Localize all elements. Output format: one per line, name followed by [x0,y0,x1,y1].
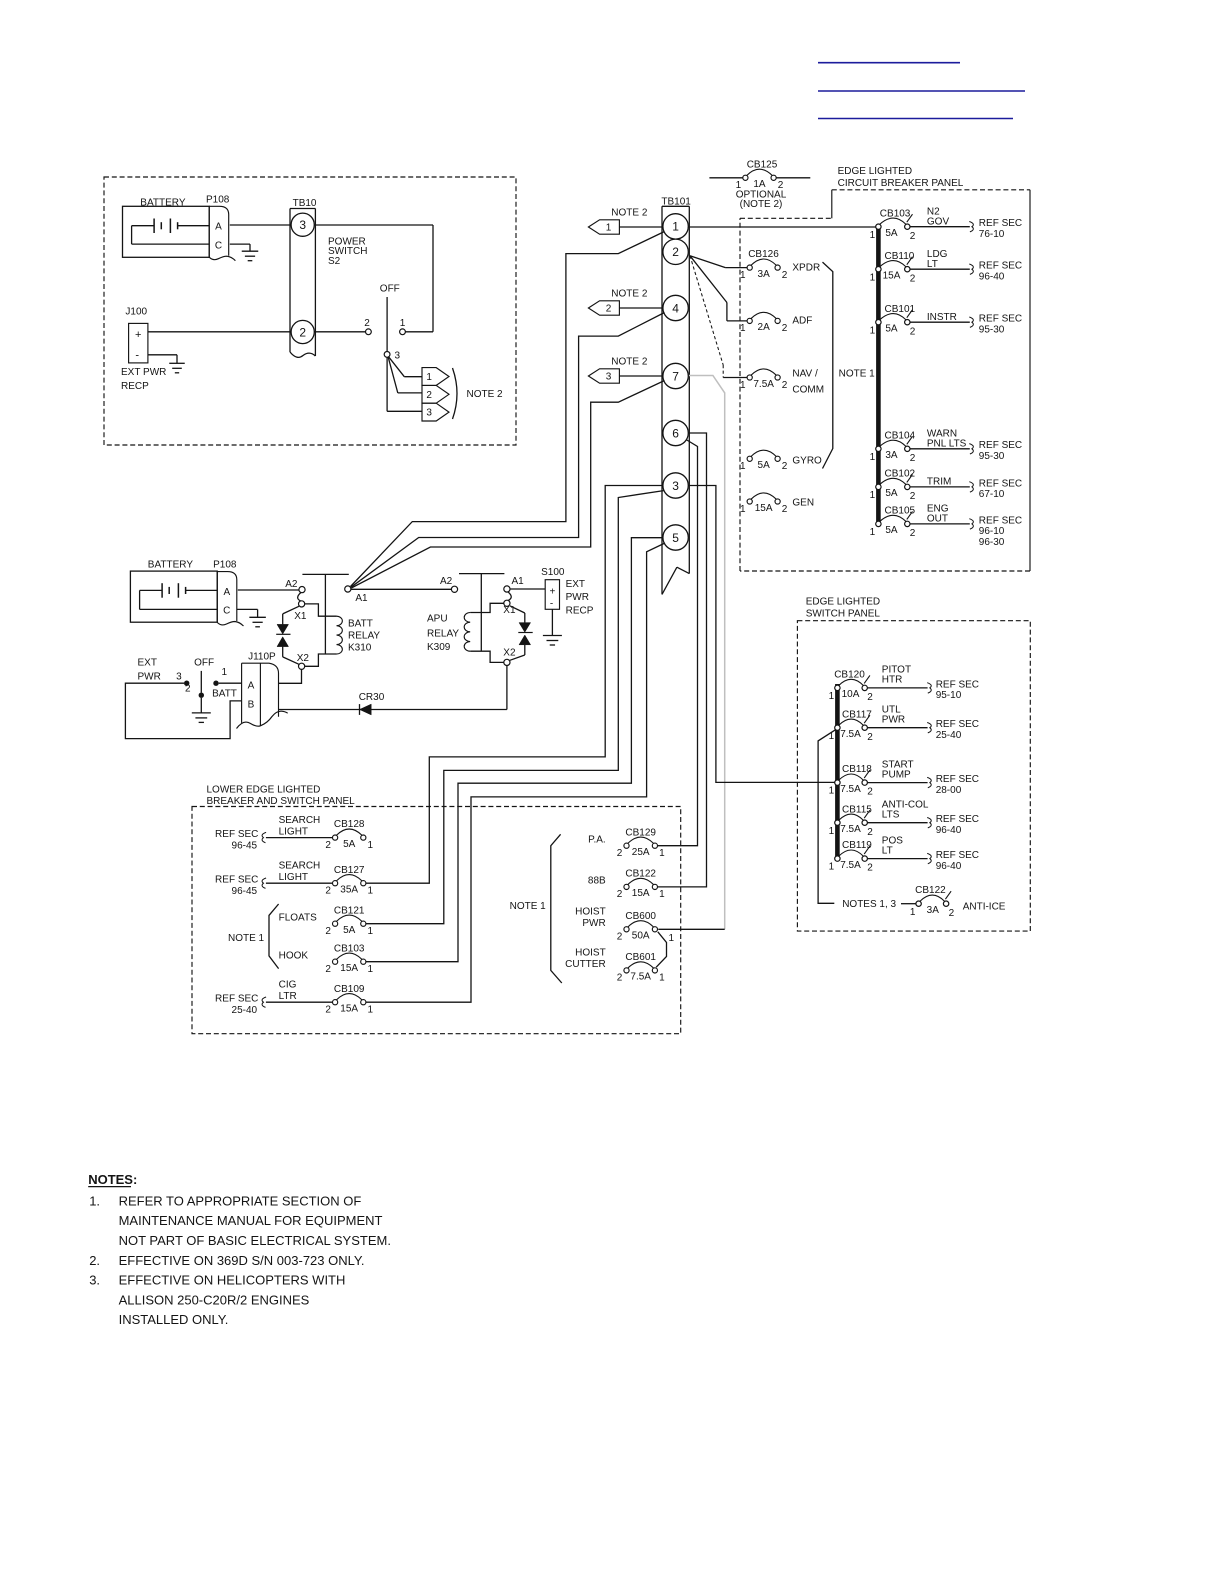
wire A1 to TB101-1 [351,232,665,587]
svg-text:LTS: LTS [882,809,900,820]
svg-text:3: 3 [606,372,612,383]
apu relay contact A2 [451,586,457,592]
svg-text:PNL LTS: PNL LTS [927,439,967,450]
label GEN [792,497,814,508]
svg-text:96-30: 96-30 [979,537,1005,548]
svg-text:1: 1 [740,323,746,334]
svg-text:J100: J100 [125,306,147,317]
wire CB103-2 to ref [910,226,970,228]
svg-text:-: - [550,599,553,610]
svg-text:BATTERY: BATTERY [148,560,194,571]
svg-text:2: 2 [867,787,873,798]
svg-text:X2: X2 [503,647,516,658]
label CR30 [359,692,385,703]
svg-text:PWR: PWR [566,592,589,603]
svg-text:BATT: BATT [212,689,237,700]
svg-text:LTR: LTR [279,991,297,1002]
svg-text:96-10: 96-10 [979,526,1005,537]
label A2 (K309) [440,576,453,587]
ref-sec hook (CB127) [262,878,266,888]
svg-text:OUT: OUT [927,514,948,525]
wire X1 contact to coil (K310) [305,604,337,616]
svg-text:NOTE 1: NOTE 1 [839,369,876,380]
svg-text:HOOK: HOOK [279,950,309,961]
wire P108-A to batt relay A2 [238,589,299,591]
relay coil K309 [464,613,470,652]
svg-text:2: 2 [325,840,331,851]
svg-text:RELAY: RELAY [427,629,459,640]
svg-text:25A: 25A [632,847,650,858]
label OFF (S2) [380,283,400,294]
label SEARCH LIGHT (CB127) [279,861,321,883]
label A2 (K310) [285,579,298,590]
label ENG OUT [927,504,949,525]
svg-text:A: A [215,221,222,232]
wire CB115-2 to ref [867,822,927,824]
svg-text:CB128: CB128 [334,819,365,830]
circuit breaker CB109 15A (lower panel) [325,984,373,1016]
svg-text:3: 3 [672,479,679,493]
svg-text:2: 2 [426,390,432,401]
label N2 GOV [927,207,950,228]
label OFF (selector) [194,658,214,669]
wire J110P-B to apu relay X2 (via CR30) [279,666,507,710]
label J110P [248,652,276,663]
wire TB101-3 to CB118 start pump [688,486,836,783]
wire coil to X2 (K309) [470,651,504,662]
svg-text:A: A [223,587,230,598]
wire hook to CB109-2 [266,1001,333,1003]
svg-text:SWITCH PANEL: SWITCH PANEL [806,608,881,619]
svg-text:LT: LT [927,259,938,270]
svg-text:3.: 3. [89,1273,100,1288]
wire S2-3 to note arrow 3 [387,357,422,411]
circuit breaker 2A (ADF) [740,312,788,334]
label ANTI-ICE [963,902,1006,913]
svg-text:2: 2 [325,964,331,975]
svg-text:25-40: 25-40 [936,730,962,741]
wire CB127 to TB101-3 [366,486,663,884]
circuit breaker CB128 5A (lower panel) [325,819,373,851]
svg-text:INSTR: INSTR [927,312,957,323]
power switch S2 contacts [364,297,406,362]
svg-text:1: 1 [870,325,876,336]
svg-text:2: 2 [364,318,370,329]
svg-text:3A: 3A [885,450,898,461]
label J100 [125,306,147,317]
svg-text:2: 2 [782,461,788,472]
note 1 text [89,1194,391,1249]
svg-text:CB118: CB118 [842,764,872,775]
svg-text:TB101: TB101 [661,196,691,207]
note-1 bracket (floats/hook) [269,904,279,969]
svg-text:2: 2 [867,863,873,874]
battery power switch enclosure (dashed box) [104,177,516,445]
label P108 (top) [206,195,230,206]
wire coil to X2 (K310) [305,654,337,666]
svg-text:1: 1 [829,826,835,837]
svg-text:EDGE LIGHTED: EDGE LIGHTED [838,166,912,177]
svg-text:PWR: PWR [582,918,605,929]
wire A1 to TB101-4 [351,313,665,588]
apu relay contact X2 [504,659,510,665]
svg-text:CB125: CB125 [747,160,778,171]
wire TB10-2 to switch contact 2 [314,331,365,333]
selector switch contacts [176,667,227,698]
label NOTE 2 (top box) [467,389,504,400]
svg-text:REF SEC: REF SEC [979,515,1022,526]
circuit breaker CB125 1A (optional) [736,169,784,191]
svg-text:2: 2 [910,273,916,284]
svg-text:2: 2 [910,326,916,337]
svg-text:15A: 15A [755,503,773,514]
svg-text:REF SEC: REF SEC [936,774,979,785]
wire TB101-7 to hoist pwr CB600 (note 1, grey) [689,376,725,930]
label REF SEC 95-10 (CB120) [936,679,979,701]
circuit breaker CB127 35A (lower panel) [325,865,373,897]
label X1 (K310) [294,611,307,622]
wire S100 to ground [551,609,553,635]
svg-text:1: 1 [426,372,432,383]
label CIG LTR (CB109) [279,980,297,1002]
wire hook to CB128-2 [266,837,333,839]
svg-text:OFF: OFF [194,658,214,669]
off-page arrow 1 at TB101 (note 2) [588,220,619,234]
label ADF [792,316,812,327]
label NOTES 1, 3 [842,899,896,910]
svg-text:1: 1 [222,667,228,678]
svg-text:HOIST: HOIST [575,948,606,959]
svg-text:2: 2 [606,304,612,315]
svg-text:NOTE 2: NOTE 2 [611,289,648,300]
ref-sec hook (CB101) [969,317,973,327]
off-page arrow 3 (note 2) [422,403,449,421]
svg-text:5A: 5A [885,228,898,239]
svg-text:GYRO: GYRO [792,456,822,467]
wire stub left of CB125 [709,177,742,179]
svg-text:A1: A1 [512,576,525,587]
svg-text:LIGHT: LIGHT [279,872,308,883]
wire ext pwr loop to J110P-B [125,683,241,738]
svg-text:LT: LT [882,845,893,856]
svg-text:2: 2 [782,323,788,334]
svg-text:15A: 15A [340,1004,358,1015]
svg-text:RECP: RECP [566,605,594,616]
svg-text:2: 2 [299,325,306,339]
svg-text:1: 1 [659,848,665,859]
svg-text:BATTERY: BATTERY [140,198,186,209]
svg-text:REF SEC: REF SEC [936,679,979,690]
wire CB118-2 to ref [867,782,927,784]
label BATT [212,689,237,700]
batt relay contact A1 [345,586,351,592]
svg-text:TRIM: TRIM [927,477,951,488]
connector J110P [237,663,288,728]
svg-text:X1: X1 [294,611,307,622]
svg-text:CB122: CB122 [915,885,946,896]
label X2 (K310) [297,653,310,664]
svg-text:95-30: 95-30 [979,451,1005,462]
connector P108 (top) [209,206,235,260]
svg-text:BREAKER AND SWITCH PANEL: BREAKER AND SWITCH PANEL [207,796,356,807]
blue header rule 1 [818,62,960,64]
label NOTE 2 (arrow 3) [611,357,648,368]
wire CB119-2 to ref [867,858,927,860]
battery BT2 [130,571,217,622]
svg-text:APU: APU [427,613,448,624]
svg-text:REF SEC: REF SEC [979,440,1022,451]
svg-text:CR30: CR30 [359,692,385,703]
label CB126 [748,249,779,260]
wire J100+ to TB10-2 [148,331,291,333]
svg-text:NAV /: NAV / [792,369,818,380]
label HOOK (CB103) [279,950,309,961]
suppression diode (K310) [276,606,299,664]
svg-text:88B: 88B [588,876,606,887]
svg-text:CB109: CB109 [334,984,365,995]
connector J100 [129,323,148,363]
svg-text:1: 1 [870,452,876,463]
ref-sec hook (CB120) [927,683,931,693]
svg-text:K310: K310 [348,642,372,653]
label SEARCH LIGHT (CB128) [279,815,321,837]
svg-text:RELAY: RELAY [348,631,380,642]
ref-sec hook (CB115) [927,818,931,828]
label S100 [541,567,565,578]
circuit breaker CB110 15A [870,251,916,285]
ref-sec hook (CB102) [969,482,973,492]
svg-text:1: 1 [870,272,876,283]
svg-text:EXT: EXT [566,579,585,590]
svg-text:5A: 5A [758,460,771,471]
circuit breaker CB122 3A (anti-ice) [910,885,955,919]
ref-sec hook (CB118) [927,777,931,787]
svg-text:EDGE LIGHTED: EDGE LIGHTED [806,597,880,608]
label HOIST CUTTER (CB601) [565,948,606,970]
svg-text:95-10: 95-10 [936,690,962,701]
label EDGE LIGHTED SWITCH PANEL [806,597,881,620]
label P108 (middle) [213,560,237,571]
label XPDR [792,262,820,273]
label START PUMP (CB118) [882,759,914,780]
svg-text:-: - [135,349,139,361]
label X1 (K309) [503,605,516,616]
svg-text:RECP: RECP [121,381,149,392]
battery BT1 [123,206,210,257]
label INSTR [927,312,957,323]
svg-text:CB129: CB129 [625,827,656,838]
svg-text:1: 1 [672,220,679,234]
blue header rule 3 [818,118,1013,120]
circuit breaker CB119 7.5A (switch panel) [829,840,874,874]
svg-text:CB122: CB122 [625,869,656,880]
label REF SEC 25-40 (CB117) [936,719,979,741]
svg-text:REF SEC: REF SEC [215,875,258,886]
svg-text:1: 1 [829,691,835,702]
svg-text:CB115: CB115 [842,804,872,815]
wire TB101-6 to CB122 (88B) [657,433,707,887]
svg-text:2.: 2. [89,1253,100,1268]
circuit breaker CB600 50A (lower panel) [617,911,675,944]
circuit breaker CB115 7.5A (switch panel) [829,804,874,838]
wire TB101-2 to CB126 [690,256,747,268]
svg-text:EFFECTIVE ON HELICOPTERS WITH: EFFECTIVE ON HELICOPTERS WITH [119,1273,346,1288]
label REF SEC 96-40 [979,261,1022,283]
label PITOT HTR (CB120) [882,665,911,686]
svg-text:NOTE 2: NOTE 2 [611,357,648,368]
wire arrow3 to TB101-7 [619,375,663,377]
svg-text:+: + [135,329,141,341]
svg-text:S100: S100 [541,567,565,578]
svg-text:CB117: CB117 [842,709,872,720]
label REF SEC 96-40 (CB115) [936,814,979,836]
svg-text:3A: 3A [927,905,940,916]
svg-text:2: 2 [910,491,916,502]
svg-text:X2: X2 [297,653,310,664]
svg-text:REF SEC: REF SEC [979,478,1022,489]
svg-text:5A: 5A [885,488,898,499]
wire J100- to ground [148,355,177,364]
svg-text:LIGHT: LIGHT [279,826,308,837]
label BATTERY (top) [140,198,186,209]
svg-text:REF SEC: REF SEC [215,829,258,840]
svg-text:GEN: GEN [792,497,814,508]
svg-text:CB103: CB103 [880,208,911,219]
off-page arrow 1 (note 2) [422,368,449,386]
svg-text:76-10: 76-10 [979,229,1005,240]
brace for note arrows [453,368,458,419]
circuit breaker CB129 25A (lower panel) [617,827,665,859]
svg-text:3: 3 [395,351,401,362]
label HOIST PWR (CB600) [575,907,606,929]
svg-text:2: 2 [782,504,788,515]
note 3 text [89,1273,345,1327]
svg-text:96-45: 96-45 [232,840,258,851]
svg-text:2: 2 [617,889,623,900]
svg-text:1: 1 [368,840,374,851]
notes heading [88,1172,137,1187]
circuit breaker 7.5A (NAV/COMM) [740,369,788,391]
ref-sec hook (CB119) [927,853,931,863]
svg-text:C: C [215,240,222,251]
wire A1 to TB101-7 [351,381,664,589]
label BATT RELAY K310 [348,619,380,654]
svg-text:3: 3 [299,218,306,232]
circuit breaker CB601 7.5A (lower panel) [617,952,665,984]
power bus bar (breaker panel) [876,227,881,524]
wire stub right of CB125 [776,177,810,179]
circuit breaker CB120 10A (switch panel) [829,670,874,704]
ref-sec hook (CB105) [969,519,973,529]
ext pwr receptacle S100 [545,580,559,610]
label REF SEC 96-40 (CB119) [936,850,979,872]
wire CB121 to TB101-3 [366,491,665,924]
svg-text:1: 1 [669,933,675,944]
svg-text:NOTE 2: NOTE 2 [467,389,504,400]
label CB125 [747,160,778,171]
ref-sec hook (CB110) [969,264,973,274]
svg-text:SEARCH: SEARCH [279,861,321,872]
svg-text:1: 1 [368,926,374,937]
lower panel enclosure (dashed) [192,807,681,1034]
label EXT PWR (selector) [138,658,161,683]
svg-text:HOIST: HOIST [575,907,606,918]
svg-text:2: 2 [672,245,679,259]
wire A1 (K309) to S100 [510,588,545,590]
ground for S100 [543,636,562,646]
svg-text:1: 1 [740,504,746,515]
circuit breaker CB103 5A [870,208,916,242]
label POS LT (CB119) [882,835,903,856]
batt relay contact X2 [299,663,305,669]
terminal strip TB101 [662,206,689,594]
svg-text:CB104: CB104 [885,430,916,441]
wire TB101-2 to ADF breaker [690,256,747,321]
svg-text:2: 2 [617,848,623,859]
svg-text:P108: P108 [206,195,230,206]
svg-text:TB10: TB10 [293,198,317,209]
svg-text:CB126: CB126 [748,249,779,260]
circuit breaker CB103 15A (lower panel) [325,943,373,975]
wire selector-1 to J110P-A [219,682,242,684]
wire selector-2 to ground [200,698,202,713]
circuit breaker CB117 7.5A (switch panel) [829,709,874,743]
ref-sec hook (CB103) [969,222,973,232]
svg-text:CUTTER: CUTTER [565,959,606,970]
svg-text:CB127: CB127 [334,865,365,876]
svg-text:2: 2 [910,231,916,242]
wire arrow2 to TB101-4 [619,307,663,309]
svg-text:PUMP: PUMP [882,769,911,780]
svg-text:NOTES 1, 3: NOTES 1, 3 [842,899,896,910]
label FLOATS (CB121) [279,912,317,923]
svg-text:2: 2 [185,684,191,695]
svg-text:REF SEC: REF SEC [979,314,1022,325]
label 88B (CB122) [588,876,606,887]
wire CB104-2 to ref [910,448,970,450]
svg-text:15A: 15A [340,963,358,974]
svg-text:2A: 2A [758,322,771,333]
wire hook to CB127-2 [266,882,333,884]
wire CB117-1 to notes 1,3 [818,730,836,904]
svg-text:96-40: 96-40 [936,861,962,872]
terminal strip TB10 [290,209,315,358]
svg-text:ANTI-ICE: ANTI-ICE [963,902,1006,913]
label LDG LT [927,249,948,270]
suppression diode (K309) [510,606,533,661]
label NOTE 2 (arrow 1) [611,208,648,219]
svg-text:P108: P108 [213,560,237,571]
svg-text:1: 1 [740,461,746,472]
label EXT PWR RECP (S100) [566,579,594,617]
svg-text:OFF: OFF [380,283,400,294]
svg-text:3A: 3A [758,269,771,280]
note-1 bracket (avionics group) [823,262,833,468]
svg-text:XPDR: XPDR [792,262,820,273]
svg-text:CB105: CB105 [885,506,916,517]
label REF SEC 67-10 [979,478,1022,500]
svg-text:7.5A: 7.5A [840,784,861,795]
wire A1 to APU relay A2 [351,588,451,590]
svg-text:2: 2 [867,827,873,838]
svg-text:1: 1 [740,270,746,281]
wire CB120-2 to ref [867,687,927,689]
label NOTE 1 (breaker panel) [839,369,876,380]
svg-text:NOTE 2: NOTE 2 [611,208,648,219]
svg-text:1: 1 [659,973,665,984]
circuit breaker CB118 7.5A (switch panel) [829,764,874,798]
svg-text:1: 1 [368,964,374,975]
